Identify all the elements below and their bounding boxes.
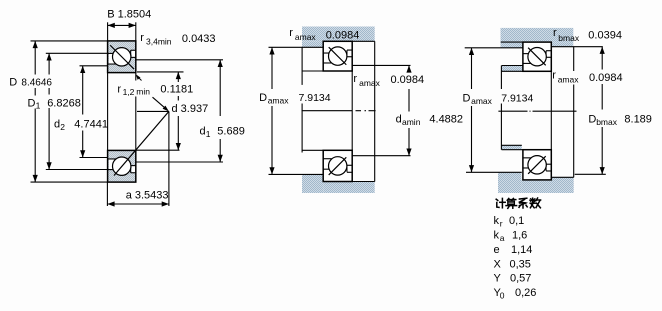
view2 damin top extension line: [353, 64, 411, 66]
svg-text:7.9134: 7.9134: [299, 92, 331, 104]
view1 d dimension line: [176, 72, 181, 79]
view1 a dimension right extension line: [168, 111, 170, 206]
view1 D1 dimension line: [47, 53, 52, 60]
view1 B dimension extension lines: [107, 22, 109, 41]
view3 top ring section: [523, 42, 551, 71]
svg-text:amax: amax: [268, 96, 290, 106]
svg-text:e: e: [494, 244, 500, 256]
view1 r12min leader arrow: [138, 77, 142, 81]
svg-text:D: D: [9, 77, 17, 89]
svg-text:0.0984: 0.0984: [326, 29, 360, 41]
svg-text:6.8268: 6.8268: [47, 97, 81, 109]
view1 d1 extension lines: [137, 59, 224, 61]
svg-text:7.9134: 7.9134: [501, 92, 533, 104]
view3 housing shoulder top-left: [501, 42, 523, 48]
svg-text:Y: Y: [494, 273, 502, 285]
view3 shaft shoulder bar bottom: [502, 145, 522, 149]
view3 housing strip top: [501, 28, 574, 42]
view3 bottom strip under section: [521, 180, 551, 193]
view2 centerline: [302, 110, 353, 112]
svg-text:bmax: bmax: [558, 33, 580, 43]
view1 D dimension line: [33, 41, 38, 48]
svg-text:0.0984: 0.0984: [391, 74, 425, 86]
svg-text:5.689: 5.689: [217, 126, 245, 138]
view2 housing bottom shoulder line with Damax extension: [269, 173, 324, 175]
view1 d1 dimension line: [218, 60, 223, 67]
svg-text:D: D: [463, 92, 471, 104]
view2 right face silhouette line: [351, 71, 353, 150]
svg-text:1,2: 1,2: [123, 87, 135, 97]
view2 housing left face line: [301, 47, 303, 85]
view3 housing cover top-right: [551, 42, 573, 47]
svg-text:r: r: [140, 32, 144, 44]
view2 top ring section: [323, 41, 352, 71]
svg-text:amax: amax: [359, 78, 381, 88]
svg-text:8.4646: 8.4646: [21, 77, 52, 88]
view2 housing bottom bore edge line: [352, 181, 375, 183]
svg-text:D: D: [588, 113, 596, 125]
svg-text:0.0394: 0.0394: [588, 30, 622, 42]
view2 housing top bore edge line: [352, 40, 375, 42]
svg-text:amax: amax: [295, 32, 317, 42]
view1 a dimension line: [107, 201, 114, 206]
svg-text:0: 0: [500, 291, 505, 301]
svg-text:r: r: [117, 83, 121, 95]
svg-text:4.4882: 4.4882: [429, 113, 463, 125]
svg-text:r: r: [353, 73, 357, 85]
view3 bottom right extension line Dbmax: [575, 173, 606, 175]
svg-text:0,1: 0,1: [509, 215, 524, 227]
view2 housing top shoulder line with Damax extension: [269, 46, 324, 48]
svg-text:k: k: [494, 229, 500, 241]
view1 bore silhouette lines: [107, 73, 109, 151]
view1 contact angle line through lower ball: [114, 111, 169, 175]
view3 shaft right face line: [573, 47, 575, 71]
view3 Dbmax dimension line: [600, 47, 605, 54]
svg-text:a: a: [500, 233, 505, 243]
view3 shaft shoulder bar top: [502, 66, 523, 72]
svg-text:d: d: [54, 119, 60, 131]
svg-text:0.0433: 0.0433: [182, 33, 216, 45]
svg-text:1: 1: [36, 101, 41, 111]
view3 bottom strip right part: [551, 177, 573, 193]
svg-text:1,6: 1,6: [512, 229, 527, 241]
svg-text:bmax: bmax: [596, 117, 618, 127]
svg-text:amin: amin: [402, 117, 421, 127]
view2 Damax dimension line: [269, 47, 274, 54]
view3 centerline: [498, 110, 527, 112]
svg-text:4.7441: 4.7441: [74, 119, 108, 131]
svg-text:min: min: [136, 87, 150, 97]
view3 shaft shoulder face line: [500, 66, 502, 90]
view2 bottom ring section: [323, 150, 352, 181]
svg-text:0,26: 0,26: [515, 287, 536, 299]
svg-text:3,4min: 3,4min: [146, 37, 172, 47]
view1 top ring section: [108, 41, 136, 73]
view1 contact angle axis segment: [137, 110, 169, 112]
svg-text:0,57: 0,57: [510, 273, 531, 285]
svg-text:r: r: [289, 27, 293, 39]
view1 a dimension left extension line: [106, 182, 108, 206]
svg-text:r: r: [552, 70, 556, 82]
svg-text:B 1.8504: B 1.8504: [107, 9, 151, 21]
svg-text:0.0984: 0.0984: [589, 72, 623, 84]
svg-text:0.1181: 0.1181: [160, 83, 193, 95]
svg-text:0,35: 0,35: [510, 258, 531, 270]
view1 D1 extension lines: [46, 52, 108, 54]
view3 bottom strip left part: [498, 173, 521, 194]
svg-text:r: r: [553, 27, 557, 39]
view3 top right shoulder line with rb extension: [551, 46, 603, 48]
view1 bottom ring section: [108, 150, 136, 182]
view3 Damax dimension line: [469, 48, 474, 55]
view3 top shoulder line with Damax extension: [465, 47, 523, 49]
svg-text:a 3.5433: a 3.5433: [126, 190, 169, 202]
svg-text:k: k: [494, 215, 500, 227]
view3 right face silhouette line: [550, 71, 552, 149]
svg-text:1: 1: [206, 129, 211, 139]
view2 housing strip bottom: [323, 182, 375, 194]
svg-text:d: d: [396, 113, 402, 125]
svg-text:8.189: 8.189: [624, 113, 652, 125]
view1 d2 extension lines: [80, 65, 108, 67]
view1 contact angle leader arrow: [153, 97, 167, 109]
view2 damin dimension line: [406, 65, 411, 72]
view2 housing right face line: [374, 41, 376, 70]
table heading 计算系数 drawn as paths: [496, 198, 540, 208]
view1 B dimension line: [108, 23, 115, 28]
view1 d extension lines: [137, 71, 184, 73]
view3 top bore edge line extended left: [501, 41, 523, 43]
svg-text:r: r: [500, 219, 503, 229]
svg-text:D: D: [28, 97, 36, 109]
view1 D extension lines: [31, 40, 108, 42]
view2 housing shoulder bottom-left: [302, 174, 323, 193]
view2 housing shoulder top-left: [302, 41, 323, 47]
svg-text:D: D: [259, 92, 267, 104]
view1 d2 dimension line: [80, 66, 85, 73]
svg-text:2: 2: [60, 122, 65, 132]
svg-text:amax: amax: [558, 75, 580, 85]
view3 bottom ring section: [523, 150, 551, 180]
svg-text:X: X: [494, 258, 502, 270]
svg-text:amax: amax: [471, 96, 493, 106]
view2 inner face stub lines: [302, 70, 323, 72]
view2 damin bottom extension line: [353, 155, 411, 157]
view2 housing strip top: [302, 27, 375, 42]
svg-text:d 3.937: d 3.937: [172, 103, 209, 115]
svg-text:1,14: 1,14: [511, 244, 532, 256]
